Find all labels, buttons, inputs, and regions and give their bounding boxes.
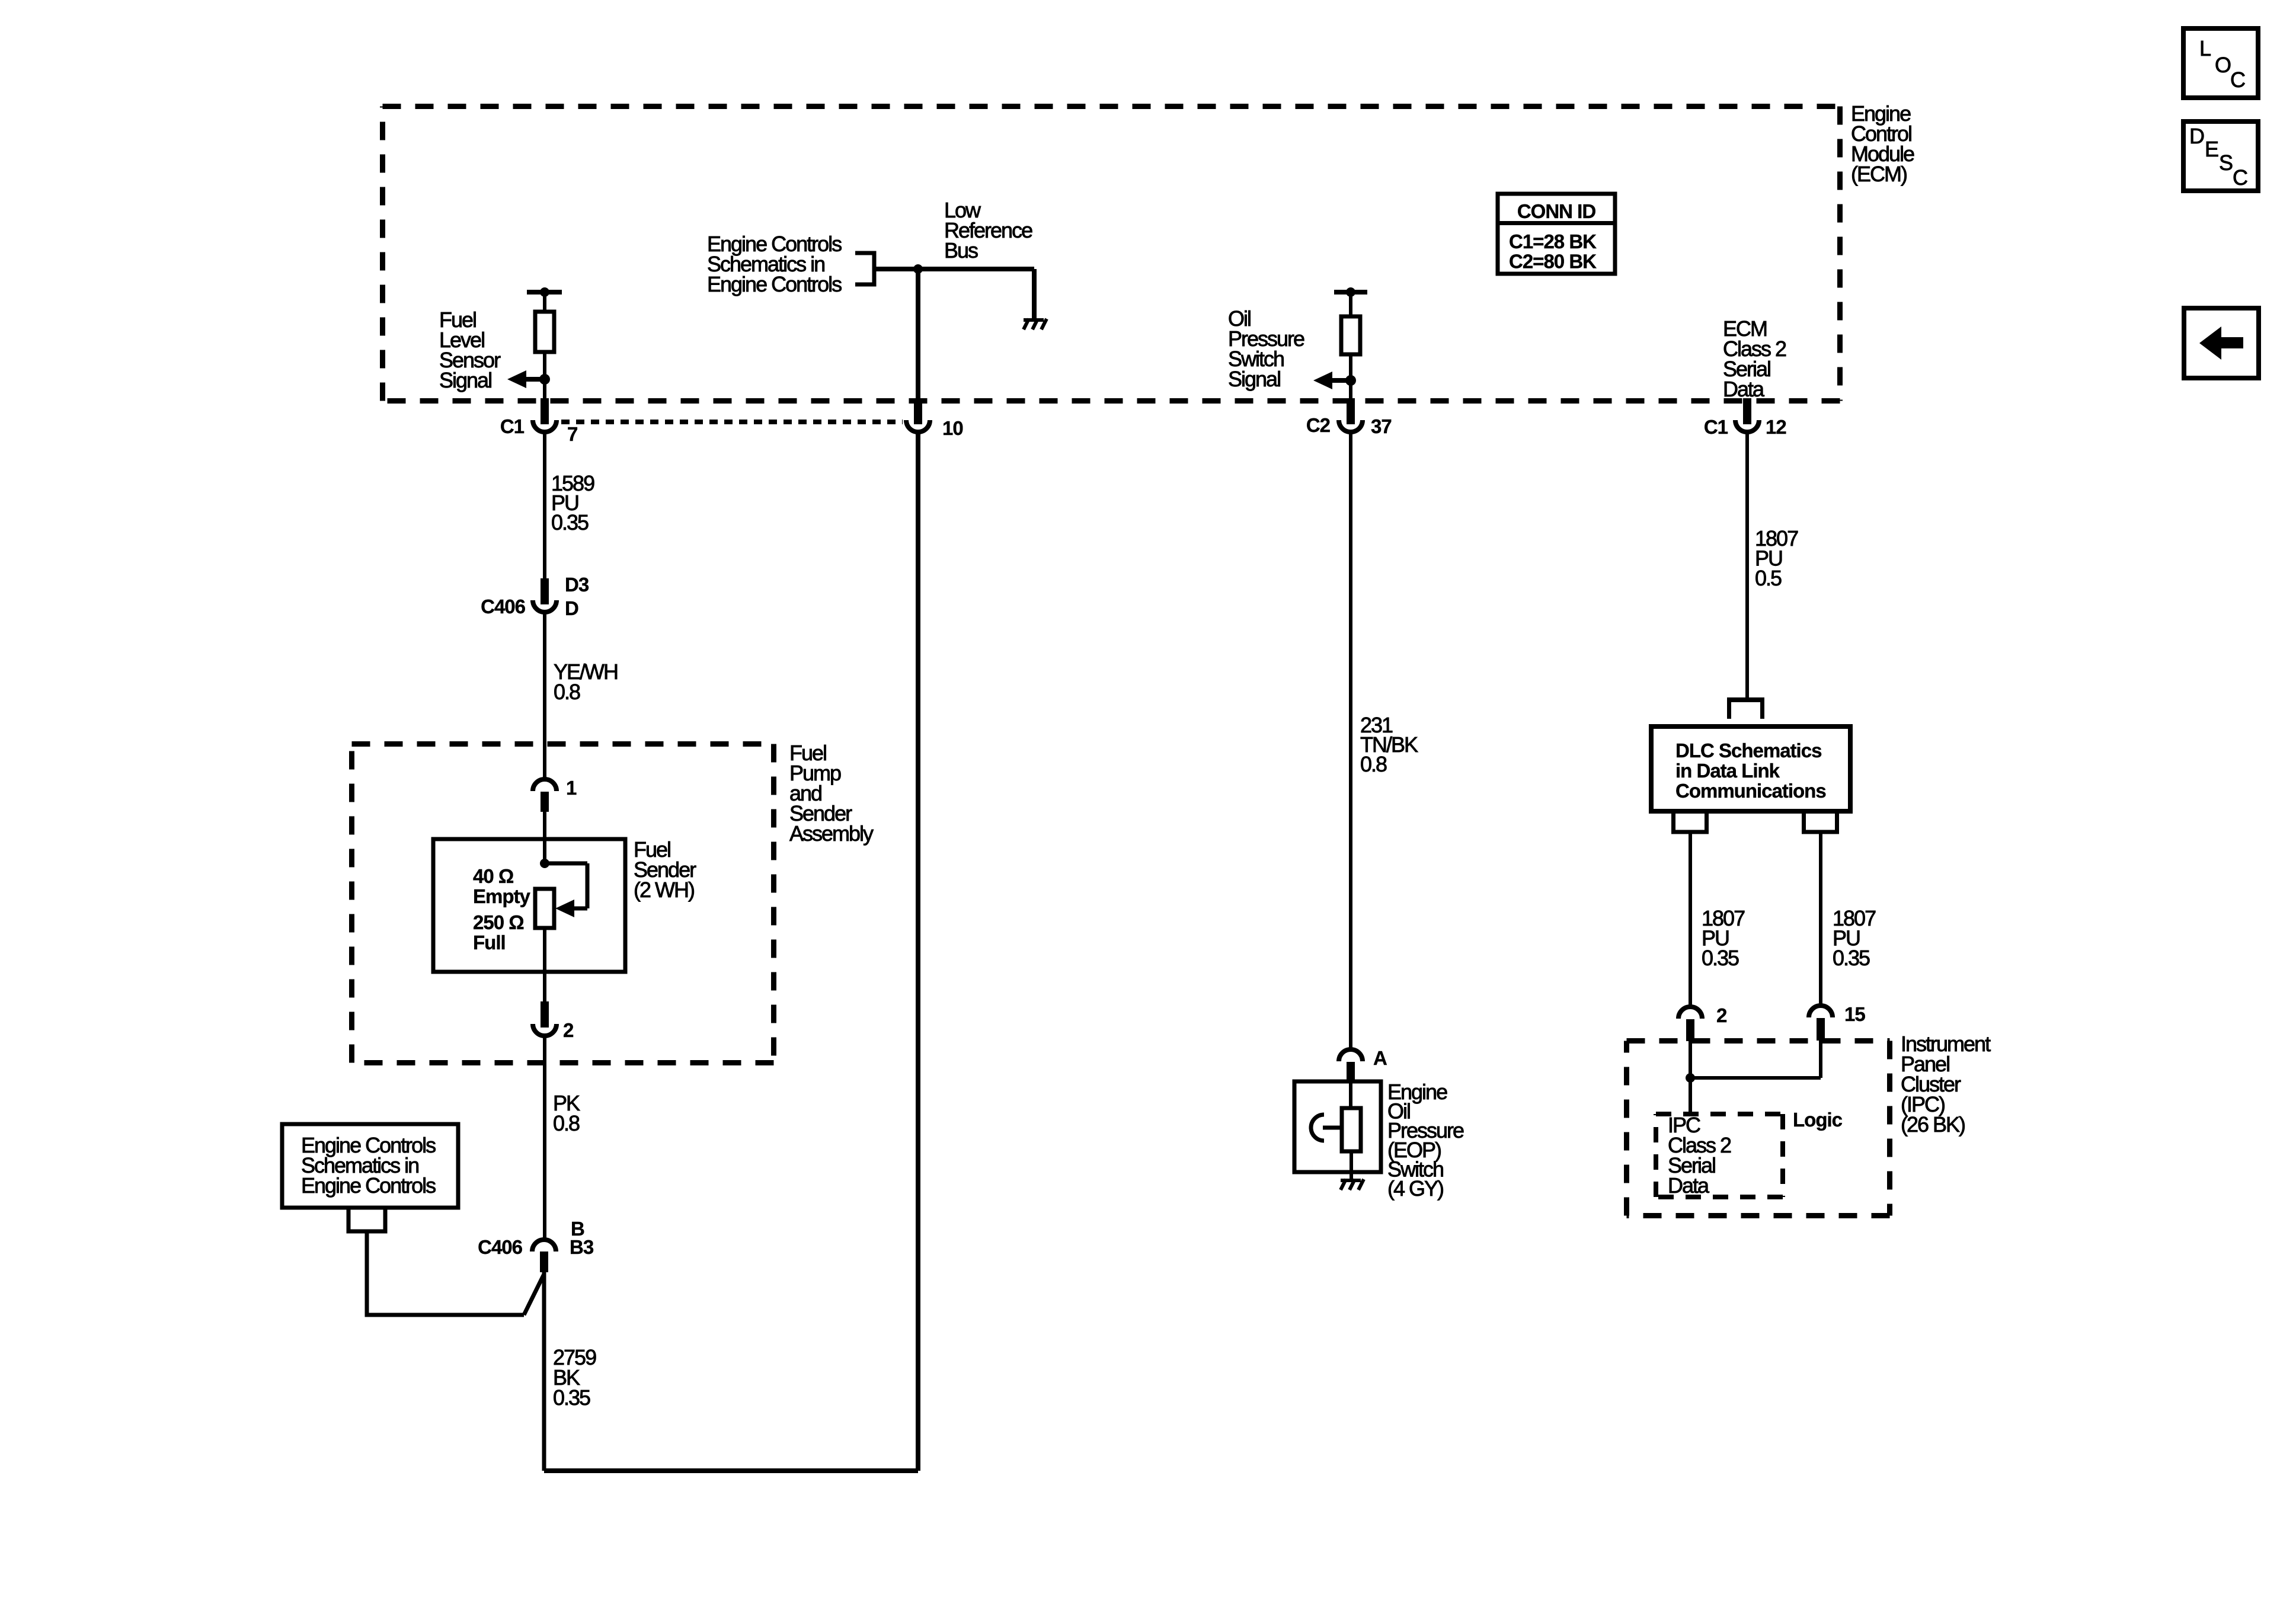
svg-text:C1: C1 bbox=[1704, 416, 1728, 438]
svg-text:CONN ID: CONN ID bbox=[1517, 200, 1596, 222]
wire 231 TN/BK 0.8 bbox=[1349, 430, 1352, 1050]
connector C1 pin 12 bbox=[1735, 398, 1759, 432]
label B bbox=[571, 1218, 584, 1240]
bracket below engine controls box bbox=[347, 1208, 388, 1231]
Fuel Level Sensor Signal label bbox=[439, 308, 501, 392]
label 1807 PU 0.35 left bbox=[1702, 906, 1745, 970]
ground EOP switch bbox=[1341, 1179, 1364, 1190]
junction dot low reference bus bbox=[913, 264, 923, 274]
svg-text:Logic: Logic bbox=[1793, 1109, 1843, 1131]
svg-text:C406: C406 bbox=[481, 596, 526, 617]
bracket below DLC box left bbox=[1671, 811, 1709, 832]
wire 2759 BK 0.35 bbox=[542, 1272, 546, 1471]
svg-text:(ECM): (ECM) bbox=[1851, 162, 1907, 186]
fuel sensor feed tick bbox=[527, 290, 562, 295]
label D bbox=[565, 597, 578, 619]
wire pin2 to logic junction bbox=[1689, 1041, 1692, 1114]
IPC Class 2 Serial Data label bbox=[1668, 1113, 1731, 1198]
wire from engine controls box bbox=[367, 1231, 524, 1317]
diagonal wire to C406 B3 bbox=[524, 1274, 544, 1315]
label 40 Ohm Empty bbox=[473, 865, 531, 907]
junction dot fuel sender wiper feed bbox=[540, 859, 549, 868]
connector pin A (EOP switch) bbox=[1339, 1049, 1363, 1083]
label C406 (B3) bbox=[478, 1236, 523, 1258]
oil pressure switch signal arrow bbox=[1313, 372, 1351, 389]
svg-text:D: D bbox=[2189, 124, 2204, 148]
wiper arrow bbox=[555, 900, 574, 917]
svg-text:Data: Data bbox=[1723, 377, 1765, 401]
junction dot oil pressure switch signal bbox=[1345, 375, 1356, 386]
connector pin 2 (IPC) bbox=[1678, 1007, 1702, 1041]
svg-text:C406: C406 bbox=[478, 1236, 523, 1258]
fine dashed connector row line bbox=[561, 420, 903, 424]
resistor oil pressure pull-up bbox=[1341, 316, 1360, 354]
svg-text:E: E bbox=[2205, 137, 2218, 161]
label A bbox=[1373, 1047, 1387, 1069]
wire bbox=[543, 352, 546, 399]
svg-text:2: 2 bbox=[563, 1019, 574, 1041]
IPC Class 2 Serial Data dashed box bbox=[1656, 1114, 1783, 1197]
svg-text:0.8: 0.8 bbox=[554, 680, 580, 704]
junction dot IPC logic bbox=[1686, 1073, 1695, 1083]
svg-text:D: D bbox=[565, 597, 578, 619]
svg-text:0.5: 0.5 bbox=[1755, 566, 1782, 590]
label YE/WH 0.8 bbox=[554, 660, 618, 704]
svg-text:D3: D3 bbox=[565, 574, 589, 596]
svg-text:C: C bbox=[2233, 165, 2247, 190]
wire low reference bus down to pin 10 bbox=[916, 269, 920, 401]
wire 1807 PU 0.35 right bbox=[1819, 832, 1822, 1006]
svg-text:(2 WH): (2 WH) bbox=[634, 878, 694, 902]
Oil Pressure Switch Signal label bbox=[1228, 306, 1304, 391]
bracket above DLC box bbox=[1727, 700, 1764, 719]
svg-text:2: 2 bbox=[1716, 1004, 1727, 1026]
label PK 0.8 bbox=[553, 1091, 580, 1135]
wiper loop wire bbox=[545, 863, 587, 908]
label 7 bbox=[567, 423, 577, 445]
svg-text:Engine Controls: Engine Controls bbox=[301, 1173, 436, 1198]
bracket to engine controls schematics bbox=[855, 251, 874, 287]
svg-text:Signal: Signal bbox=[439, 368, 491, 392]
Logic label bbox=[1793, 1109, 1843, 1131]
svg-text:0.35: 0.35 bbox=[1833, 946, 1870, 970]
junction dot fuel level sensor signal bbox=[539, 374, 550, 385]
junction dot top of oil resistor bbox=[1346, 287, 1355, 297]
DLC Schematics label bbox=[1675, 740, 1826, 802]
back arrow icon bbox=[2184, 308, 2259, 378]
wire inside EOP switch bbox=[1349, 1083, 1352, 1110]
label 10 bbox=[942, 417, 963, 439]
label 2759 BK 0.35 bbox=[553, 1345, 596, 1410]
svg-text:C1: C1 bbox=[500, 415, 525, 437]
svg-text:B3: B3 bbox=[570, 1236, 594, 1258]
svg-text:C2: C2 bbox=[1306, 414, 1331, 436]
Fuel Sender label bbox=[634, 837, 696, 902]
wire 1807 PU 0.35 left bbox=[1689, 832, 1692, 1007]
wire low reference bus to ground bbox=[918, 269, 1034, 320]
EOP switch box bbox=[1294, 1081, 1381, 1172]
connector pin 15 (IPC) bbox=[1809, 1006, 1833, 1041]
svg-text:Communications: Communications bbox=[1675, 780, 1826, 802]
fuel sender variable resistor bbox=[535, 889, 554, 928]
wire below sender resistor bbox=[543, 928, 546, 1003]
svg-text:1: 1 bbox=[566, 777, 577, 799]
fuel sender box bbox=[433, 839, 625, 972]
wire low reference bus from bracket bbox=[874, 267, 918, 271]
Engine Oil Pressure Switch label bbox=[1387, 1080, 1464, 1201]
svg-text:Signal: Signal bbox=[1228, 367, 1280, 391]
svg-text:Assembly: Assembly bbox=[789, 821, 874, 846]
svg-text:A: A bbox=[1373, 1047, 1387, 1069]
svg-text:Engine Controls: Engine Controls bbox=[707, 272, 842, 296]
wire 1807 PU 0.5 bbox=[1745, 430, 1749, 702]
bracket below DLC box right bbox=[1802, 811, 1839, 832]
Engine Controls Schematics label (top) bbox=[707, 232, 842, 296]
junction dot top of fuel sensor resistor bbox=[540, 287, 549, 297]
Engine Controls Schematics box (bottom) bbox=[282, 1124, 458, 1208]
svg-text:0.8: 0.8 bbox=[553, 1111, 580, 1135]
svg-text:Full: Full bbox=[473, 932, 506, 953]
svg-text:(4 GY): (4 GY) bbox=[1387, 1176, 1443, 1201]
svg-text:12: 12 bbox=[1766, 416, 1786, 438]
bottom ground return run bbox=[544, 432, 918, 1471]
wire bbox=[1349, 292, 1352, 318]
svg-text:C1=28 BK: C1=28 BK bbox=[1509, 231, 1597, 252]
connector C1 pin 7 bbox=[533, 398, 557, 432]
svg-text:0.35: 0.35 bbox=[1702, 946, 1739, 970]
pressure switch contact bbox=[1311, 1115, 1342, 1141]
label 1589 PU 0.35 bbox=[551, 471, 594, 534]
CONN ID table bbox=[1498, 194, 1615, 274]
wire below EOP switch bbox=[1350, 1151, 1353, 1180]
Engine Control Module (ECM) dashed box bbox=[383, 107, 1840, 401]
label B3 bbox=[570, 1236, 594, 1258]
wire 1589 PU 0.35 bbox=[543, 430, 546, 581]
wire into fuel sender bbox=[543, 812, 546, 865]
wire PK 0.8 bbox=[543, 1034, 546, 1240]
svg-text:15: 15 bbox=[1844, 1003, 1865, 1025]
label 1807 PU 0.5 bbox=[1755, 526, 1798, 590]
wire logic junction to pin 15 bbox=[1690, 1041, 1821, 1078]
oil pressure feed tick bbox=[1334, 290, 1367, 295]
DLC Schematics box bbox=[1651, 726, 1850, 811]
fuel level sensor signal arrow bbox=[507, 370, 545, 388]
label C2 bbox=[1306, 414, 1331, 436]
Instrument Panel Cluster dashed box bbox=[1627, 1041, 1890, 1216]
svg-text:Bus: Bus bbox=[944, 238, 978, 263]
Instrument Panel Cluster label bbox=[1901, 1032, 1991, 1137]
label 15 (IPC) bbox=[1844, 1003, 1865, 1025]
svg-text:Empty: Empty bbox=[473, 885, 531, 907]
svg-text:S: S bbox=[2219, 151, 2233, 175]
connector C2 pin 37 bbox=[1339, 398, 1363, 432]
resistor inside EOP switch bbox=[1342, 1108, 1361, 1151]
label C406 (D) bbox=[481, 596, 526, 617]
wire YE/WH 0.8 bbox=[543, 610, 546, 780]
label 250 Ohm Full bbox=[473, 911, 524, 953]
connector pin 2 (assembly) bbox=[533, 1001, 557, 1036]
svg-text:C: C bbox=[2230, 68, 2245, 92]
Fuel Pump and Sender Assembly label bbox=[789, 741, 874, 846]
Engine Controls Schematics label (bottom) bbox=[301, 1133, 436, 1198]
connector C406 pin B/B3 bbox=[532, 1240, 556, 1272]
svg-text:Data: Data bbox=[1668, 1173, 1710, 1198]
svg-text:0.35: 0.35 bbox=[551, 510, 589, 534]
connector pin 10 bbox=[906, 398, 930, 432]
svg-text:10: 10 bbox=[942, 417, 963, 439]
connector C406 pin D3/D bbox=[533, 578, 557, 612]
svg-text:DLC Schematics: DLC Schematics bbox=[1675, 740, 1821, 761]
DESC icon bbox=[2183, 121, 2258, 191]
wire bbox=[1349, 354, 1352, 399]
ECM Class 2 Serial Data label bbox=[1723, 316, 1786, 401]
svg-text:L: L bbox=[2199, 36, 2211, 60]
svg-text:250 Ω: 250 Ω bbox=[473, 911, 524, 933]
Low Reference Bus label bbox=[944, 198, 1032, 263]
label 2 (assembly) bbox=[563, 1019, 574, 1041]
connector pin 1 (assembly) bbox=[533, 779, 557, 812]
svg-text:7: 7 bbox=[567, 423, 577, 445]
label 37 bbox=[1371, 415, 1392, 437]
svg-text:0.35: 0.35 bbox=[553, 1385, 590, 1410]
label D3 bbox=[565, 574, 589, 596]
resistor fuel level sensor pull-up bbox=[535, 312, 554, 352]
LOC icon bbox=[2183, 28, 2258, 98]
label 2 (IPC) bbox=[1716, 1004, 1727, 1026]
svg-text:37: 37 bbox=[1371, 415, 1392, 437]
label 1807 PU 0.35 right bbox=[1833, 906, 1876, 970]
label 12 bbox=[1766, 416, 1786, 438]
ground low reference bbox=[1024, 319, 1047, 329]
svg-text:C2=80 BK: C2=80 BK bbox=[1509, 251, 1597, 273]
svg-text:in Data Link: in Data Link bbox=[1675, 760, 1780, 782]
ECM label bbox=[1851, 101, 1914, 186]
label 231 TN/BK 0.8 bbox=[1360, 713, 1418, 776]
svg-text:40 Ω: 40 Ω bbox=[473, 865, 514, 887]
Fuel Pump and Sender Assembly dashed box bbox=[352, 744, 774, 1063]
label 1 (assembly) bbox=[566, 777, 577, 799]
svg-text:(26 BK): (26 BK) bbox=[1901, 1112, 1965, 1137]
wire bbox=[543, 292, 546, 313]
svg-text:0.8: 0.8 bbox=[1360, 752, 1387, 776]
label C1 (pin 12) bbox=[1704, 416, 1728, 438]
svg-text:O: O bbox=[2215, 53, 2231, 77]
label C1 (pin 7) bbox=[500, 415, 525, 437]
